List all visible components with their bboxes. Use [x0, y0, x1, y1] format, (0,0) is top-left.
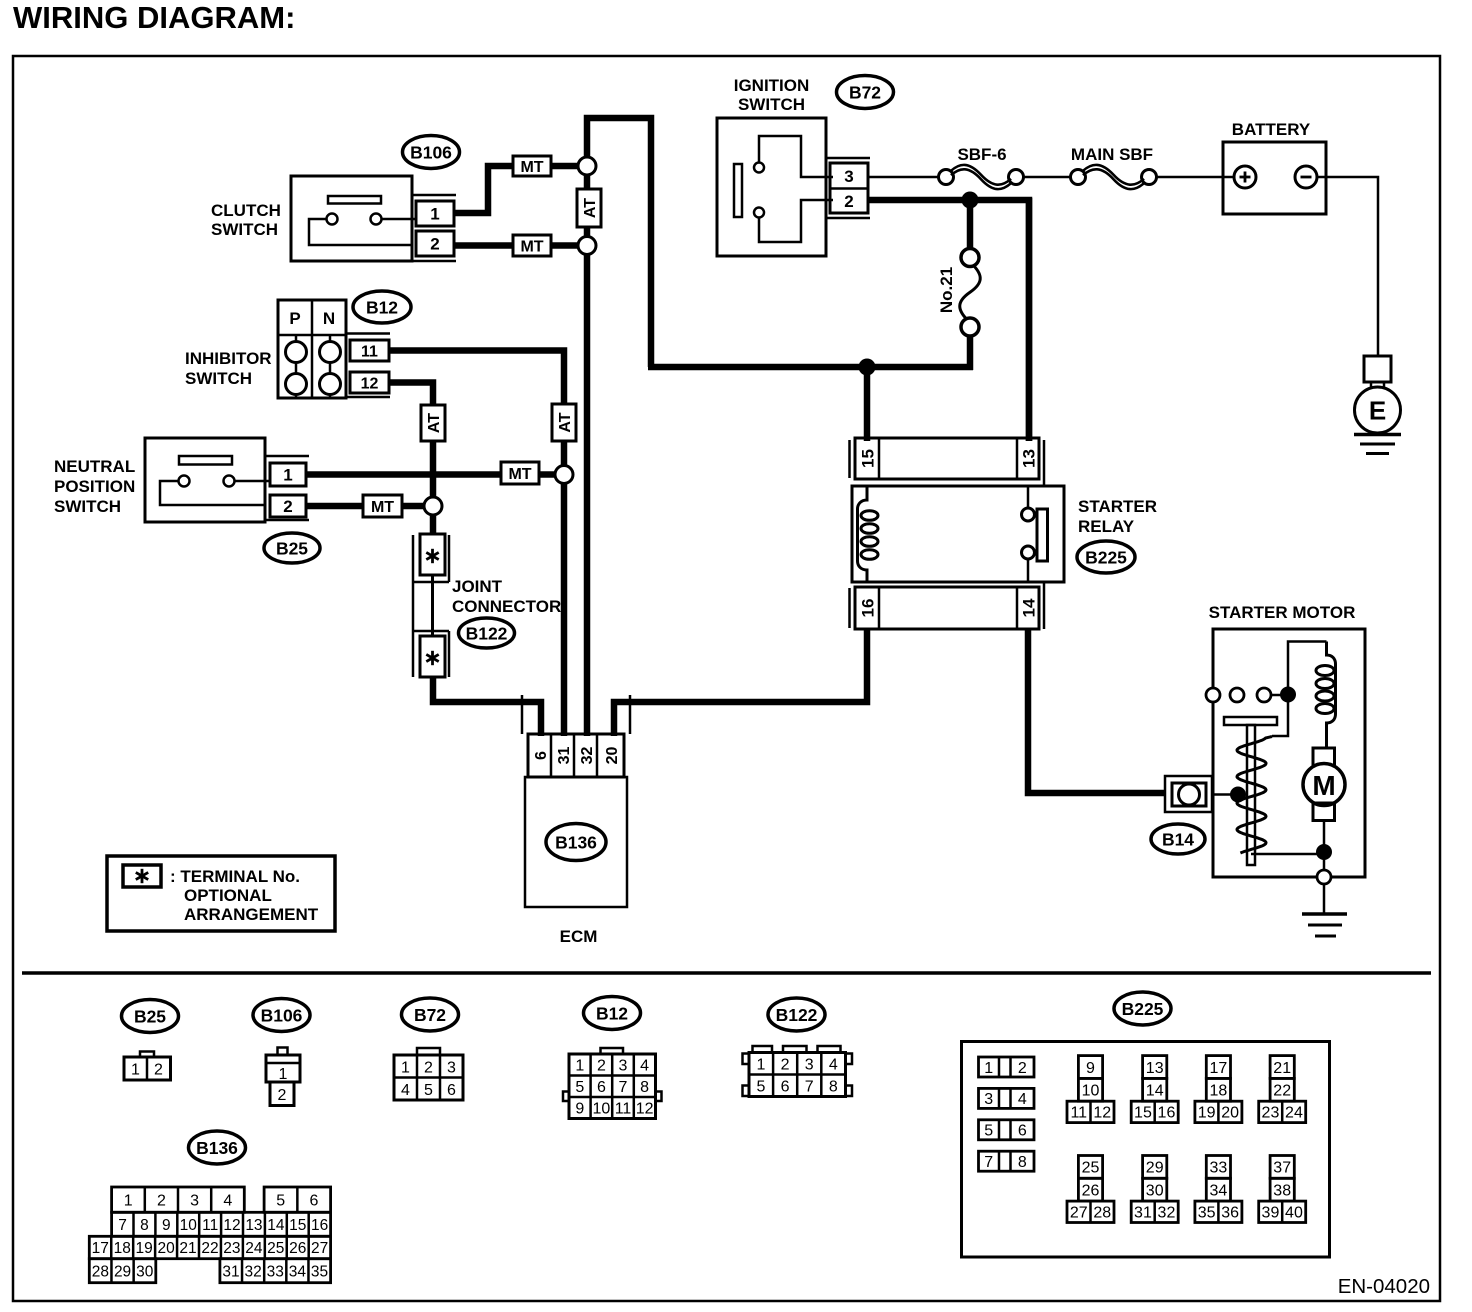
svg-text:17: 17 — [1210, 1060, 1228, 1077]
svg-text:7: 7 — [805, 1078, 814, 1095]
svg-text:15: 15 — [859, 449, 878, 468]
svg-text:24: 24 — [245, 1240, 263, 1257]
svg-text:B122: B122 — [466, 623, 508, 643]
svg-text:1: 1 — [575, 1057, 584, 1074]
svg-text:6: 6 — [447, 1082, 456, 1099]
svg-text:20: 20 — [1221, 1105, 1239, 1122]
solenoid spring — [1237, 737, 1272, 854]
svg-text:B106: B106 — [261, 1005, 303, 1025]
solenoid contact circles — [1206, 688, 1220, 702]
wire AT to MT junction — [561, 441, 568, 466]
wire joint connector to ECM pin 6 — [433, 677, 541, 736]
AT tag 3 — [421, 405, 445, 441]
battery B1 box — [1223, 142, 1326, 214]
svg-text:7: 7 — [984, 1154, 993, 1171]
legend connector B225 outer box — [962, 1042, 1330, 1258]
svg-text:12: 12 — [636, 1100, 654, 1117]
connector B14 contact circle — [1179, 784, 1200, 805]
solenoid plunger T bar — [1224, 717, 1277, 725]
svg-text:31: 31 — [556, 747, 573, 765]
svg-text:B72: B72 — [849, 82, 881, 102]
svg-text:P: P — [289, 309, 300, 328]
connector B12 pin 12 — [350, 372, 389, 393]
wire between joint connector terminals — [431, 575, 434, 636]
svg-text:B106: B106 — [410, 142, 452, 162]
svg-text:19: 19 — [1198, 1105, 1216, 1122]
case terminal circle — [1317, 870, 1331, 884]
ECM connector rails — [521, 695, 524, 734]
inhibitor P contacts — [295, 335, 298, 341]
ignition internal wiring to pin 3 — [759, 136, 833, 177]
svg-text:22: 22 — [1273, 1083, 1291, 1100]
svg-text:20: 20 — [604, 747, 621, 765]
starter relay box B225 — [852, 486, 1064, 582]
legend connector B106 pinout — [278, 1048, 288, 1056]
relay coil — [858, 486, 868, 582]
svg-text:No.21: No.21 — [937, 267, 956, 313]
svg-text:19: 19 — [136, 1240, 153, 1257]
wire AT to MT junction lower — [430, 441, 437, 498]
legend separator line — [22, 971, 1431, 975]
svg-text:AT: AT — [582, 198, 599, 218]
svg-text:30: 30 — [136, 1263, 154, 1280]
svg-text:31: 31 — [222, 1263, 239, 1280]
svg-text:14: 14 — [1020, 598, 1039, 617]
svg-text:38: 38 — [1273, 1182, 1291, 1199]
svg-text:11: 11 — [1070, 1105, 1087, 1122]
svg-text:32: 32 — [245, 1263, 262, 1280]
legend connector label B136 — [189, 1131, 246, 1164]
legend B225 pin tee groups — [1078, 1056, 1102, 1079]
junction node solenoid — [1280, 687, 1296, 703]
svg-text:INHIBITOR: INHIBITOR — [185, 349, 272, 368]
svg-text:3: 3 — [619, 1057, 628, 1074]
wire NPS pin1 to MT — [306, 471, 501, 478]
svg-text:30: 30 — [1146, 1182, 1164, 1199]
clutch switch internal wiring — [309, 219, 412, 245]
terminal note * symbol box — [123, 865, 161, 887]
svg-text:B72: B72 — [414, 1005, 446, 1025]
svg-text:1: 1 — [283, 466, 292, 485]
wire MT/AT bus down to ECM pin 32 — [584, 255, 591, 737]
MT tag 2 — [513, 235, 551, 256]
relay top connector rails — [848, 440, 851, 478]
svg-text:N: N — [323, 309, 335, 328]
svg-text:34: 34 — [289, 1263, 307, 1280]
wire AT/MT junction down to ECM pin 31 — [561, 483, 568, 736]
inhibitor N contacts — [329, 335, 332, 341]
svg-text:MT: MT — [520, 238, 543, 255]
wire node up to field coil — [1288, 642, 1327, 695]
svg-text:OPTIONAL: OPTIONAL — [184, 886, 272, 905]
connector B106 pin 1 — [416, 201, 454, 226]
wire clutch pin2 to MT — [454, 242, 513, 249]
svg-text:4: 4 — [223, 1192, 232, 1209]
svg-text:1: 1 — [757, 1056, 766, 1073]
svg-text:ECM: ECM — [560, 927, 598, 946]
connector B12 pin 11 — [350, 340, 389, 361]
ground E connector square — [1364, 356, 1391, 382]
svg-text:26: 26 — [289, 1240, 306, 1257]
wire plunger bottom to motor junction — [1251, 853, 1324, 856]
connector label B136 — [546, 824, 606, 861]
battery minus terminal — [1295, 166, 1317, 188]
svg-text:6: 6 — [533, 751, 550, 760]
svg-text:POSITION: POSITION — [54, 477, 135, 496]
svg-text:CLUTCH: CLUTCH — [211, 201, 281, 220]
clutch switch contacts — [327, 214, 338, 225]
svg-text:9: 9 — [1086, 1060, 1095, 1077]
legend connector label B25 — [122, 1000, 179, 1033]
svg-text:B136: B136 — [196, 1138, 238, 1158]
svg-text:26: 26 — [1082, 1182, 1100, 1199]
svg-text:CONNECTOR: CONNECTOR — [452, 597, 561, 616]
svg-text:34: 34 — [1210, 1182, 1228, 1199]
ground symbol E — [1354, 433, 1401, 437]
svg-text:2: 2 — [278, 1087, 287, 1104]
svg-text:20: 20 — [157, 1240, 175, 1257]
svg-text:4: 4 — [1018, 1091, 1027, 1108]
wire AT box to lower junction — [584, 227, 591, 240]
svg-text:3: 3 — [844, 167, 853, 186]
svg-text:1: 1 — [430, 205, 439, 224]
svg-text:2: 2 — [430, 235, 439, 254]
svg-text:6: 6 — [309, 1192, 318, 1209]
svg-text:1: 1 — [279, 1066, 288, 1083]
svg-text:SWITCH: SWITCH — [54, 497, 121, 516]
legend connector B122 pinout — [753, 1046, 773, 1053]
fuse No.21 — [961, 249, 979, 267]
svg-text:14: 14 — [1146, 1083, 1164, 1100]
svg-text:B12: B12 — [596, 1003, 628, 1023]
wire contact to node — [1271, 694, 1288, 697]
svg-text:AT: AT — [557, 412, 574, 432]
svg-text:40: 40 — [1285, 1205, 1303, 1222]
wire pin11 to AT — [389, 351, 564, 406]
svg-text:16: 16 — [311, 1217, 328, 1234]
svg-text:8: 8 — [140, 1217, 149, 1234]
junction node MT/AT upper — [578, 157, 596, 175]
AT tag 1 — [577, 189, 601, 227]
svg-text:B136: B136 — [555, 832, 597, 852]
legend B225 pin pair boxes — [979, 1057, 1035, 1077]
svg-text:18: 18 — [1210, 1083, 1228, 1100]
ignition switch box — [717, 118, 826, 256]
svg-text:3: 3 — [984, 1091, 993, 1108]
svg-text:MT: MT — [508, 466, 531, 483]
wire MT3 to junction — [539, 471, 556, 478]
motor M — [1303, 764, 1345, 806]
solenoid plunger stem — [1247, 725, 1255, 865]
svg-text:25: 25 — [1082, 1160, 1100, 1177]
svg-text:18: 18 — [114, 1240, 131, 1257]
ignition key bar — [734, 164, 742, 217]
svg-text:12: 12 — [1093, 1105, 1111, 1122]
svg-text:1: 1 — [124, 1192, 133, 1209]
connector B12 rails — [346, 332, 390, 335]
svg-text:13: 13 — [245, 1217, 262, 1234]
connector B14 box — [1165, 776, 1212, 812]
svg-text:9: 9 — [162, 1217, 171, 1234]
svg-text:WIRING DIAGRAM:: WIRING DIAGRAM: — [13, 0, 295, 35]
wire relay pin14 to starter motor B14 — [1028, 629, 1166, 793]
fuse MAIN SBF — [1071, 170, 1086, 185]
svg-text:27: 27 — [1070, 1205, 1088, 1222]
neutral switch contacts — [179, 476, 190, 487]
legend connector label B72 — [402, 998, 459, 1031]
wire case to ground — [1323, 884, 1326, 914]
wire junction down to relay pin 15 — [864, 367, 871, 441]
svg-text:B14: B14 — [1162, 829, 1194, 849]
wire bus corner down to relay pin 13 — [1026, 198, 1033, 441]
svg-text:13: 13 — [1020, 449, 1039, 468]
svg-text:AT: AT — [426, 413, 443, 433]
neutral switch lever — [179, 456, 232, 465]
svg-text:M: M — [1312, 770, 1335, 801]
connector B25 pin 2 — [270, 495, 306, 517]
wire junction to AT box — [584, 175, 591, 190]
svg-text:23: 23 — [1262, 1105, 1280, 1122]
svg-text:STARTER MOTOR: STARTER MOTOR — [1209, 603, 1356, 622]
svg-text:SWITCH: SWITCH — [185, 369, 252, 388]
MT tag 3 — [501, 462, 539, 484]
svg-text:15: 15 — [1134, 1105, 1152, 1122]
svg-text:25: 25 — [267, 1240, 284, 1257]
svg-text:7: 7 — [619, 1079, 628, 1096]
svg-text:SWITCH: SWITCH — [738, 95, 805, 114]
svg-text:10: 10 — [180, 1217, 198, 1234]
svg-text:6: 6 — [1018, 1123, 1027, 1140]
clutch switch lever — [328, 196, 381, 204]
legend connector B72 pinout — [417, 1048, 440, 1055]
junction node MT/AT lower — [578, 237, 596, 255]
svg-text:22: 22 — [201, 1240, 218, 1257]
svg-text:1: 1 — [401, 1059, 410, 1076]
svg-text:2: 2 — [154, 1061, 163, 1078]
svg-text:STARTER: STARTER — [1078, 497, 1157, 516]
wire pin3 to SBF-6 fuse — [868, 176, 939, 179]
svg-text:5: 5 — [984, 1123, 993, 1140]
svg-text:5: 5 — [757, 1078, 766, 1095]
svg-text:12: 12 — [223, 1217, 240, 1234]
svg-text:MT: MT — [371, 499, 394, 516]
svg-text:: TERMINAL No.: : TERMINAL No. — [170, 867, 300, 886]
battery plus terminal — [1234, 166, 1256, 188]
connector B106 pin 2 — [416, 231, 454, 256]
wire battery minus to ground E — [1317, 177, 1378, 357]
ECM pin row box — [528, 734, 624, 777]
svg-text:35: 35 — [311, 1263, 328, 1280]
svg-text:8: 8 — [640, 1079, 649, 1096]
svg-text:11: 11 — [202, 1217, 218, 1234]
svg-text:33: 33 — [267, 1263, 284, 1280]
wire MT to junction — [551, 163, 578, 170]
svg-text:ARRANGEMENT: ARRANGEMENT — [184, 905, 319, 924]
connector label B12 — [353, 291, 411, 323]
wire MT/AT bus up and over to ignition feed — [587, 118, 651, 367]
svg-text:21: 21 — [179, 1240, 196, 1257]
wire B14 to plunger — [1212, 793, 1240, 796]
relay top connector box — [855, 438, 1039, 479]
wire horizontal relay feed bus — [648, 364, 973, 371]
svg-text:B122: B122 — [776, 1005, 818, 1025]
svg-text:14: 14 — [267, 1217, 285, 1234]
connector label B72 — [837, 76, 894, 109]
fuse SBF-6 — [939, 170, 954, 185]
svg-text:4: 4 — [640, 1057, 649, 1074]
wire node to case circle — [1323, 852, 1326, 870]
svg-text:B12: B12 — [366, 297, 398, 317]
svg-text:4: 4 — [401, 1082, 410, 1099]
joint connector terminal * upper — [420, 534, 445, 575]
svg-text:10: 10 — [593, 1100, 611, 1117]
MT tag 1 — [513, 156, 551, 176]
svg-text:B225: B225 — [1122, 999, 1164, 1019]
junction node motor ground — [1316, 844, 1332, 860]
wire clutch pin1 to MT — [454, 166, 513, 213]
joint connector rails — [412, 535, 415, 677]
svg-text:2: 2 — [597, 1057, 606, 1074]
svg-text:2: 2 — [157, 1192, 166, 1209]
svg-text:28: 28 — [1093, 1205, 1111, 1222]
relay contact wiring — [1027, 486, 1030, 508]
svg-text:28: 28 — [92, 1263, 109, 1280]
connector label B106 — [403, 136, 460, 169]
svg-text:6: 6 — [597, 1079, 606, 1096]
svg-text:NEUTRAL: NEUTRAL — [54, 457, 135, 476]
svg-text:33: 33 — [1210, 1160, 1228, 1177]
legend connector label B12 — [584, 997, 641, 1030]
svg-text:MAIN SBF: MAIN SBF — [1071, 145, 1153, 164]
svg-text:2: 2 — [844, 192, 853, 211]
ignition internal wiring to pin 2 — [759, 200, 833, 242]
wire NPS pin2 to MT — [306, 503, 363, 510]
svg-text:13: 13 — [1146, 1060, 1164, 1077]
svg-text:16: 16 — [859, 599, 878, 618]
legend connector B25 pinout — [140, 1052, 154, 1058]
junction node bus to fuse No.21 — [962, 192, 979, 209]
svg-text:7: 7 — [118, 1217, 127, 1234]
ground E neck — [1370, 382, 1373, 389]
neutral position switch box — [145, 438, 265, 522]
junction node AT/MT left — [424, 497, 442, 515]
junction node relay coil feed — [859, 359, 876, 376]
svg-text:B25: B25 — [134, 1006, 166, 1026]
svg-text:3: 3 — [805, 1056, 814, 1073]
wire junction to fuse No.21 — [967, 200, 974, 249]
AT tag 2 — [552, 404, 576, 441]
legend connector label B106 — [253, 999, 310, 1032]
legend connector label B225 — [1114, 992, 1171, 1025]
connector label B122 — [459, 618, 515, 648]
wire fuse No.21 down to relay bus — [967, 336, 974, 371]
svg-text:4: 4 — [829, 1056, 838, 1073]
junction node plunger feed — [1230, 787, 1246, 803]
motor brush upper — [1313, 748, 1335, 766]
svg-text:JOINT: JOINT — [452, 577, 503, 596]
svg-text:5: 5 — [276, 1192, 285, 1209]
svg-text:BATTERY: BATTERY — [1232, 120, 1311, 139]
connector label B225 — [1077, 541, 1135, 573]
legend connector B12 pinout — [601, 1048, 624, 1054]
connector B25 pin 1 — [270, 463, 306, 486]
svg-text:SWITCH: SWITCH — [211, 220, 278, 239]
relay contact points — [1022, 508, 1035, 521]
svg-text:12: 12 — [361, 375, 379, 392]
svg-text:IGNITION: IGNITION — [734, 76, 810, 95]
connector label B25 — [264, 533, 320, 563]
relay bottom connector box — [855, 587, 1039, 629]
wire relay pin16 to ECM pin 20 — [614, 629, 867, 736]
ground symbol starter — [1302, 912, 1347, 916]
svg-text:5: 5 — [575, 1079, 584, 1096]
svg-text:MT: MT — [520, 159, 543, 176]
ground E circle — [1355, 387, 1401, 433]
ignition contacts — [754, 163, 764, 173]
wire MT4 to junction — [402, 503, 425, 510]
ECM body box — [525, 777, 627, 907]
svg-text:RELAY: RELAY — [1078, 517, 1135, 536]
svg-text:2: 2 — [283, 497, 292, 516]
svg-text:3: 3 — [190, 1192, 199, 1209]
svg-text:2: 2 — [781, 1056, 790, 1073]
svg-text:32: 32 — [579, 747, 596, 765]
svg-text:3: 3 — [447, 1059, 456, 1076]
svg-text:11: 11 — [615, 1100, 632, 1117]
svg-text:23: 23 — [223, 1240, 240, 1257]
svg-text:2: 2 — [424, 1059, 433, 1076]
svg-text:1: 1 — [984, 1060, 993, 1077]
svg-text:6: 6 — [781, 1078, 790, 1095]
junction node AT/MT right — [555, 466, 573, 484]
terminal note legend box — [107, 856, 335, 931]
starter field coil — [1327, 642, 1336, 749]
starter motor box — [1213, 629, 1365, 877]
relay movable contact bar — [1037, 509, 1048, 561]
svg-text:24: 24 — [1285, 1105, 1303, 1122]
svg-text:1: 1 — [131, 1061, 140, 1078]
svg-text:16: 16 — [1158, 1105, 1176, 1122]
svg-text:8: 8 — [829, 1078, 838, 1095]
svg-text:EN-04020: EN-04020 — [1338, 1275, 1430, 1298]
svg-text:37: 37 — [1273, 1160, 1291, 1177]
clutch switch box — [291, 176, 412, 261]
motor brush lower — [1313, 803, 1335, 821]
svg-text:11: 11 — [361, 343, 378, 360]
svg-text:39: 39 — [1262, 1205, 1280, 1222]
neutral switch internal wiring — [160, 481, 265, 505]
svg-text:8: 8 — [1018, 1154, 1027, 1171]
svg-text:29: 29 — [114, 1263, 131, 1280]
relay bottom connector rails — [848, 588, 851, 628]
wire MT2 to junction — [551, 242, 578, 249]
wire junction to joint connector — [430, 514, 437, 535]
svg-text:29: 29 — [1146, 1160, 1164, 1177]
inhibitor switch box — [278, 300, 346, 398]
svg-text:B25: B25 — [276, 538, 308, 558]
svg-text:27: 27 — [311, 1240, 328, 1257]
wire SBF-6 to MAIN SBF — [1024, 176, 1071, 179]
legend connector label B122 — [768, 998, 825, 1031]
wire MAIN SBF to battery plus — [1157, 176, 1235, 179]
svg-text:35: 35 — [1198, 1205, 1216, 1222]
svg-text:SBF-6: SBF-6 — [957, 145, 1006, 164]
legend connector B136 pinout — [112, 1187, 245, 1212]
wire node down to plunger — [1272, 694, 1288, 736]
svg-text:9: 9 — [575, 1100, 584, 1117]
joint connector terminal * lower — [420, 636, 445, 677]
svg-text:2: 2 — [1018, 1060, 1027, 1077]
